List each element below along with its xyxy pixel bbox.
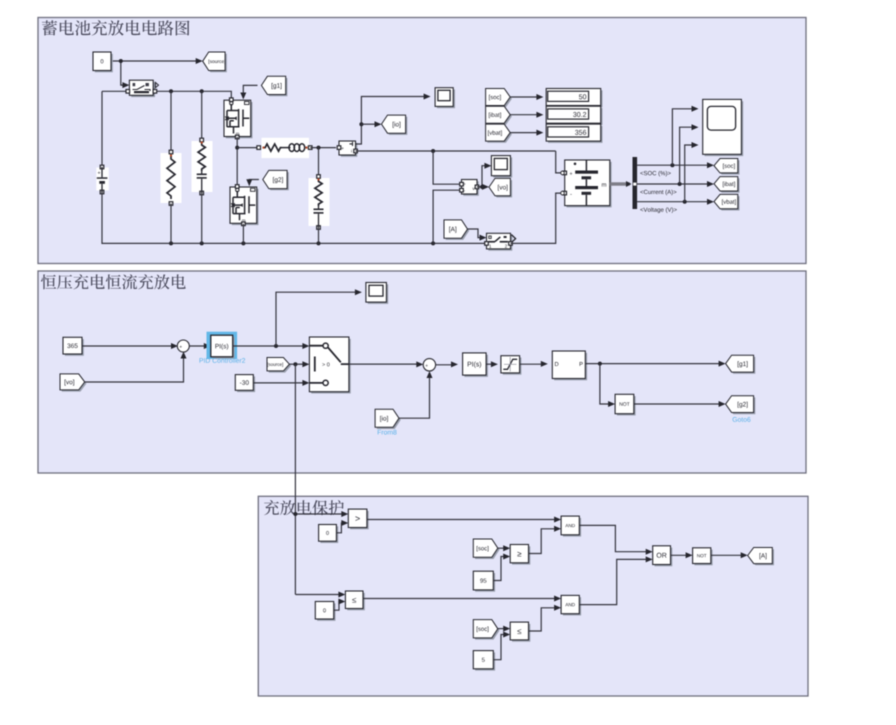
relational operator GE [512,546,530,564]
wire: rail down to RC branch 1 [201,91,203,139]
wire: LE1 output to AND2 [363,598,557,600]
current measurement block I1 [341,143,358,157]
constant C0a value 0 protection [320,526,338,543]
constant C365 value 365 [65,339,84,356]
wire: AND1 to OR input1 [579,525,648,551]
wire: bus Current output [637,183,709,185]
wire: sum1 to PID controller [189,345,206,347]
series RC branch 1 [192,141,213,192]
wire: 0b to lessequal input2 [334,602,341,611]
wire: PWM to goto g1 [585,363,721,365]
switch SW1 [311,339,351,394]
from tag io middle [377,411,401,429]
constant C0b value 0 protection2 [317,603,335,621]
wire: io to sum2 bottom [399,376,430,419]
wire: GT output to AND1 [367,519,557,521]
wire: g2 gate into MOSFET Q2 [249,180,259,182]
goto tag vo [491,180,512,197]
wire: breaker output rail to MOSFET Q1 drain [157,91,232,99]
wire: long vertical branch to greater block input1 [295,513,343,515]
MOSFET Q2 [232,189,259,225]
sum block SUM2 [423,359,435,371]
relational operator GT [350,511,369,529]
wire: PID out to switch input1 with scope branch [233,345,305,347]
goto tag vbat right [716,196,740,210]
constant C95 value 95 [475,573,495,592]
battery BAT [567,162,612,208]
voltage measurement block V1 [463,181,479,196]
display D1 value 50 [548,90,603,107]
panel: CV/CC charge-discharge control area [38,271,806,473]
wire: branch up to scope S4 [276,292,357,346]
from tag source middle [269,359,291,372]
breaker B1 [131,82,155,97]
wire: soc to GE input1 [498,547,506,549]
wire: soc tag to display1 [510,96,539,98]
wire: node down to RC branch 2 [318,148,320,176]
wire: g1 gate into MOSFET Q1 [243,85,257,94]
goto tag source [204,54,226,72]
scope S4 [368,284,389,304]
scope S2 small [493,157,512,177]
from tag soc protection upper [475,541,500,559]
from tag vbat display [487,126,512,143]
series RL branch [262,138,310,158]
logical NOT protection [694,550,712,566]
panel: battery charge/discharge circuit area [38,18,806,264]
wire: 95 to GE input2 [493,557,505,581]
sum block SUM1 [177,340,189,352]
bus selector [633,157,638,209]
wire: NOT to goto A [711,554,743,556]
wire: 365 to sum1 [82,345,174,347]
wire: GE output to AND1 input2 [529,529,557,554]
wire: elec from current meas to battery plus node [356,150,556,152]
PID controller selected highlight [207,332,238,359]
breaker B2 [488,235,512,251]
wire: SOC up to scope S3 input1 [672,109,694,165]
wire: 0a to greater input2 [336,523,343,533]
from tag ibat display [487,108,512,125]
wire: constant0 to source goto and down to breaker [111,60,199,62]
from tag g1 [263,78,287,96]
wire: long vertical from source junction down to protection panel [294,364,296,594]
wire: OR to NOT [671,554,689,556]
wire: vo to sum1 bottom [85,356,184,382]
wire: A tag to breaker B2 control [468,229,483,238]
wire: Q2 source to bottom rail [242,224,244,244]
wire: long vertical to lessequal block input1 [295,594,341,596]
relational operator LE2 [512,624,530,642]
wire: soc lower to LE2 input1 [498,628,506,630]
logical OR [655,548,673,567]
from tag vo middle [62,376,87,392]
wire: vbat tag to display3 [510,132,539,134]
relational operator LE1 [347,593,365,611]
wire: bus SOC output [637,164,709,166]
PID controller block PI(s) [213,337,235,359]
bus wire: battery m output to bus selector [610,182,630,185]
wire: bottom rail up to voltage measurement minus [433,190,460,243]
from tag g2 [265,172,289,190]
from tag soc protection lower [475,621,500,639]
wire: ibat tag to display2 [510,114,539,116]
logical NOT block middle [617,396,636,415]
scope S3 large [705,101,744,156]
wire: RC1 to bottom rail [201,193,203,243]
wire: current meas i output to scope and io goto [356,97,426,145]
goto tag ibat right [716,178,740,192]
goto tag io [383,117,407,135]
wire: saturation to PWM generator [520,363,544,365]
saturation block SAT1 [503,358,522,375]
wire: Voltage up to scope S3 input3 [685,145,694,202]
goto tag g1 middle [727,357,755,374]
wire: bus Voltage output [637,201,709,203]
wire: branch down to NOT [600,364,611,404]
resistor R1 branch [161,153,182,203]
wire: battery branch top to breaker left port [102,90,127,92]
constant Cm30 value -30 [237,376,255,392]
wire: PI2 to saturation [486,363,493,365]
display D3 value 356 [548,126,603,143]
wire: AND2 to OR input2 [579,559,648,604]
label PID Controller2 [200,358,246,363]
constant C5 value 5 [475,652,495,670]
MOSFET Q1 [226,102,253,138]
panel: charge/discharge protection area [258,496,808,696]
wire: breaker B2 output to battery minus [511,193,564,243]
bus signal labels [640,171,670,177]
goto tag g2 middle [727,397,755,414]
wire: 5 to LE2 input2 [493,635,505,660]
title: 充放电保护 [264,500,344,515]
wire: voltage meas output to scope and vo goto [477,166,487,187]
wire: RC2 to bottom rail [318,228,320,244]
series RC branch 2 [309,178,330,226]
wire: sum2 to PI(s) [435,364,453,366]
wire: mid node to series RL [237,147,257,149]
title: 恒压充电恒流充放电 [41,274,186,289]
PI controller block PI2 [464,355,488,377]
wire: NOT to goto g2 [634,403,721,405]
PWM generator block [554,353,587,381]
wire: switch output to sum2 [349,363,419,365]
wire: Current up to scope S3 input2 [680,127,694,184]
wire: Q1 source down to mid node and MOSFET Q2 [236,137,238,186]
wire: -30 to switch input3 [253,382,305,384]
goto tag soc right [716,160,740,174]
wire: RL to current measurement [310,147,336,149]
from tag A top panel [446,222,470,240]
constant C0 value 0 [95,54,113,73]
wire: LE2 output to AND2 input2 [529,608,557,631]
wire: R1 to bottom rail [170,204,172,244]
logical AND1 [563,518,581,537]
label Goto6 [733,417,751,422]
wire: source to switch control [289,363,305,365]
title: 蓄电池充放电电路图 [42,20,190,36]
DC voltage source E1 [96,168,109,191]
junction dots on bottom rail [169,241,173,245]
wire: node down to voltage measurement plus [433,151,460,184]
wire: rail down to resistor R1 [170,91,172,151]
display D2 value 30.2 [548,108,603,125]
wire: battery E1 to bottom rail [102,192,487,243]
label From8 [378,430,397,435]
goto tag A protection [749,549,774,565]
logical AND2 [563,597,581,615]
from tag soc display [487,90,512,107]
scope S1 [437,90,455,109]
